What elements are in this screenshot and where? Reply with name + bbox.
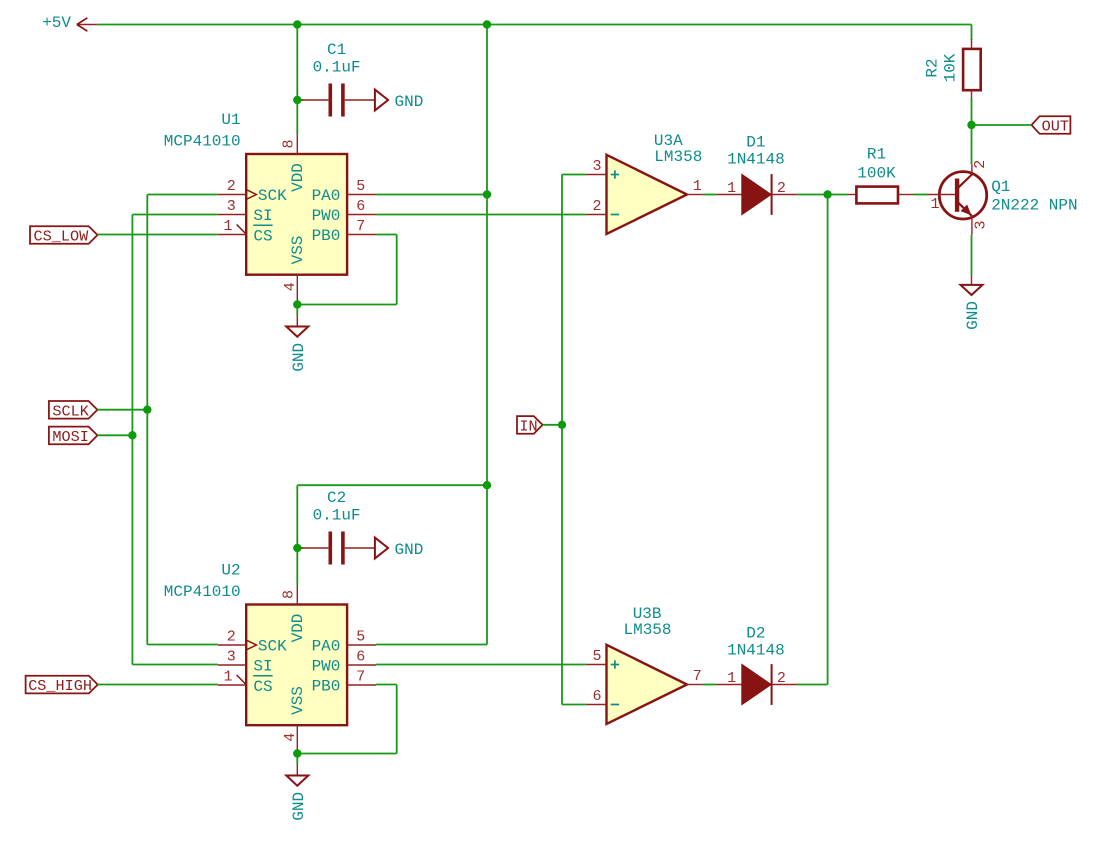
svg-text:3: 3 [972,220,989,229]
junction VDD column at C2 [293,544,301,552]
svg-text:6: 6 [592,688,601,705]
svg-text:PW0: PW0 [312,658,341,676]
svg-text:5: 5 [356,629,365,646]
svg-text:4: 4 [282,733,299,742]
wire U1 PA0 to +5V column [376,194,487,196]
capacitor C1 [297,99,303,101]
svg-text:VDD: VDD [289,614,307,643]
junction OUT node [967,121,975,129]
global label SCLK [49,401,98,419]
svg-text:100K: 100K [857,164,896,182]
wire diode bus to R1 [828,194,848,196]
svg-text:VDD: VDD [289,163,307,192]
svg-text:4: 4 [282,282,299,291]
wire top rail corner down to R2 [971,25,973,41]
svg-text:2: 2 [227,178,236,195]
svg-text:SCK: SCK [258,638,287,656]
svg-text:CS: CS [253,227,272,245]
op IC U1 MCP41010 digital potentiometer [246,154,347,275]
svg-text:SI: SI [253,658,272,676]
svg-text:1N4148: 1N4148 [727,642,785,660]
svg-text:SCLK: SCLK [52,402,89,420]
junction VDD column at C1 [293,96,301,104]
svg-text:7: 7 [356,218,365,235]
svg-text:8: 8 [280,139,297,148]
svg-text:D2: D2 [746,625,765,643]
transistor Q1 2N222 NPN [939,172,986,219]
svg-text:GND: GND [290,343,308,372]
wire U1 PW0 to U3A inverting input [376,214,586,216]
wire U1 SI from MOSI bus [132,214,217,216]
junction PA0 column at U1 PA0 row [483,190,491,198]
svg-text:VSS: VSS [289,686,307,715]
wire OUT node to label [972,124,1032,126]
wire U2 PB0 to VSS [297,753,396,755]
svg-text:2: 2 [777,670,786,687]
wire MOSI label to bus [97,434,132,436]
wire U2 PB0 stub [376,684,397,686]
svg-text:LM358: LM358 [623,621,671,639]
svg-text:5: 5 [592,648,601,665]
wire U3A output to D1 anode [703,194,717,196]
wire D1 cathode to R1 node [797,194,828,196]
svg-text:1: 1 [223,218,232,235]
diode D2 1N4148 [716,684,741,686]
power symbol GND below U2 [296,754,298,765]
svg-text:2N222 NPN: 2N222 NPN [991,197,1077,215]
svg-text:PW0: PW0 [312,207,341,225]
global label IN [517,416,543,434]
wire IN label to bus [543,424,562,426]
svg-text:1: 1 [930,196,939,213]
svg-text:0.1uF: 0.1uF [313,506,361,524]
power symbol GND below U1 [296,305,298,316]
svg-text:7: 7 [693,668,702,685]
svg-text:U1: U1 [221,111,240,129]
wire U2 PA0 to +5V column [376,644,487,646]
svg-text:R1: R1 [867,146,886,164]
svg-text:PB0: PB0 [312,227,341,245]
junction U2 VSS node [293,749,301,757]
svg-text:D1: D1 [746,134,765,152]
global label MOSI [49,427,98,445]
power symbol GND at C2 [375,538,388,559]
wire IN bus vertical [561,175,563,705]
junction top rail at PA0 column [483,20,491,28]
svg-text:1: 1 [693,178,702,195]
svg-text:PA0: PA0 [312,187,341,205]
wire CS_HIGH to U2 CS pin [98,684,218,686]
wire +5V top rail [97,24,971,26]
wire U1 PB0 to VSS [297,304,396,306]
svg-text:GND: GND [395,93,424,111]
wire R1 to Q1 base [914,194,928,196]
svg-text:8: 8 [280,590,297,599]
wire U1 SCK from SCLK bus [147,194,218,196]
svg-text:6: 6 [356,649,365,666]
svg-text:6: 6 [356,198,365,215]
junction top rail at VDD column [293,20,301,28]
resistor R2 10K [971,39,973,49]
svg-text:1: 1 [727,670,736,687]
svg-text:2: 2 [592,198,601,215]
svg-text:2: 2 [972,160,989,169]
wire VDD column to U1 pin 8 [296,28,298,135]
svg-text:10K: 10K [942,53,960,82]
svg-text:Q1: Q1 [991,178,1010,196]
svg-text:7: 7 [356,669,365,686]
wire U1 PB0 stub [376,234,397,236]
svg-text:U2: U2 [221,562,240,580]
svg-text:CS: CS [253,678,272,696]
wire U3B output to D2 anode [703,684,717,686]
wire diode output bus vertical [827,195,829,685]
wire emitter to GND [971,235,973,275]
svg-text:3: 3 [227,198,236,215]
svg-text:MOSI: MOSI [52,428,88,446]
svg-text:GND: GND [290,792,308,821]
svg-text:5: 5 [356,178,365,195]
wire U2 PB0 vertical [396,685,398,754]
svg-text:3: 3 [592,158,601,175]
wire IN bus to U3A noninverting input [562,174,586,176]
svg-text:2: 2 [227,629,236,646]
svg-text:GND: GND [395,541,424,559]
junction SCLK bus [143,406,151,414]
op-amp U3A LM358 [607,155,688,234]
wire +5V vertical column [486,25,488,645]
junction IN bus [558,421,566,429]
wire SCLK label to bus [97,409,147,411]
svg-text:0.1uF: 0.1uF [313,58,361,76]
op IC U2 MCP41010 digital potentiometer [246,605,347,726]
capacitor C2 [297,547,303,549]
junction U1 VSS node [293,300,301,308]
svg-text:1N4148: 1N4148 [727,151,785,169]
svg-text:PB0: PB0 [312,678,341,696]
wire D2 cathode to bus corner [797,684,828,686]
wire IN bus to U3B inverting input [562,704,586,706]
power symbol GND at C1 [375,90,388,111]
svg-text:1: 1 [223,669,232,686]
wire CS_LOW to U1 CS pin [98,234,218,236]
svg-text:3: 3 [227,649,236,666]
svg-text:R2: R2 [924,58,942,77]
svg-text:SCK: SCK [258,187,287,205]
svg-text:C2: C2 [327,489,346,507]
svg-text:CS_LOW: CS_LOW [34,228,90,246]
wire MOSI bus vertical [131,215,133,665]
svg-text:OUT: OUT [1042,118,1069,136]
wire U2 SCK from SCLK bus [147,644,218,646]
junction diode output bus [823,190,831,198]
junction MOSI bus [128,431,136,439]
svg-text:LM358: LM358 [654,148,702,166]
wire C2 feed horizontal [297,484,487,486]
power symbol GND at Q1 emitter [971,275,973,285]
wire R2 to OUT node [971,98,973,125]
svg-text:MCP41010: MCP41010 [164,583,241,601]
wire SCLK bus vertical [146,195,148,645]
diode D1 1N4148 [716,194,741,196]
wire OUT node to collector [971,125,973,164]
power symbol +5V [77,24,97,26]
svg-text:VSS: VSS [289,236,307,265]
junction +5V column at C2 feed [483,481,491,489]
wire U1 PB0 vertical [396,235,398,305]
svg-text:2: 2 [777,180,786,197]
global label CS_HIGH [26,676,98,694]
svg-text:GND: GND [964,301,982,330]
svg-text:CS_HIGH: CS_HIGH [28,677,92,695]
wire VDD column to U2 pin 8 [296,485,298,585]
global label OUT [1032,116,1071,134]
svg-text:+5V: +5V [42,14,71,32]
svg-text:1: 1 [727,180,736,197]
global label CS_LOW [30,226,98,244]
svg-text:SI: SI [253,207,272,225]
op-amp U3B LM358 [607,645,688,724]
svg-text:IN: IN [519,418,537,436]
resistor R1 100K [847,194,856,196]
wire U2 PW0 to U3B noninverting input [376,664,586,666]
svg-text:PA0: PA0 [312,638,341,656]
svg-text:C1: C1 [327,41,346,59]
svg-text:MCP41010: MCP41010 [164,132,241,150]
wire U2 SI from MOSI bus [132,664,217,666]
